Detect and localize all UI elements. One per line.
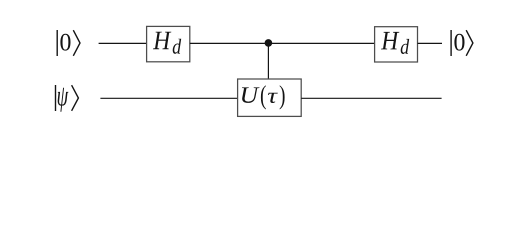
wire: vertical control line from dot to U gate (267, 43, 269, 79)
wire: top qubit, from Hd1 through control to Hd2 (190, 42, 375, 44)
gate Hd1 (first Hadamard-type gate box with label H_d) (147, 26, 190, 61)
wire: bottom qubit, from U gate to right end (301, 97, 441, 99)
wire: top qubit, from |0&gt; to gate Hd1 (99, 42, 147, 44)
ket |0&gt; label (top-right output state) (451, 30, 473, 56)
ket |psi&gt; label (bottom-left input state) (56, 85, 79, 112)
gate Hd2 (second Hadamard-type gate box with label H_d) (375, 27, 418, 62)
control dot on top qubit (265, 39, 273, 47)
wire: bottom qubit, from |psi&gt; to U gate (100, 97, 237, 99)
wire: top qubit, from Hd2 to output ket (418, 42, 443, 44)
gate U (controlled-unitary gate box with label U(tau)) (238, 79, 302, 116)
ket |0&gt; label (top-left input state) (57, 30, 80, 56)
